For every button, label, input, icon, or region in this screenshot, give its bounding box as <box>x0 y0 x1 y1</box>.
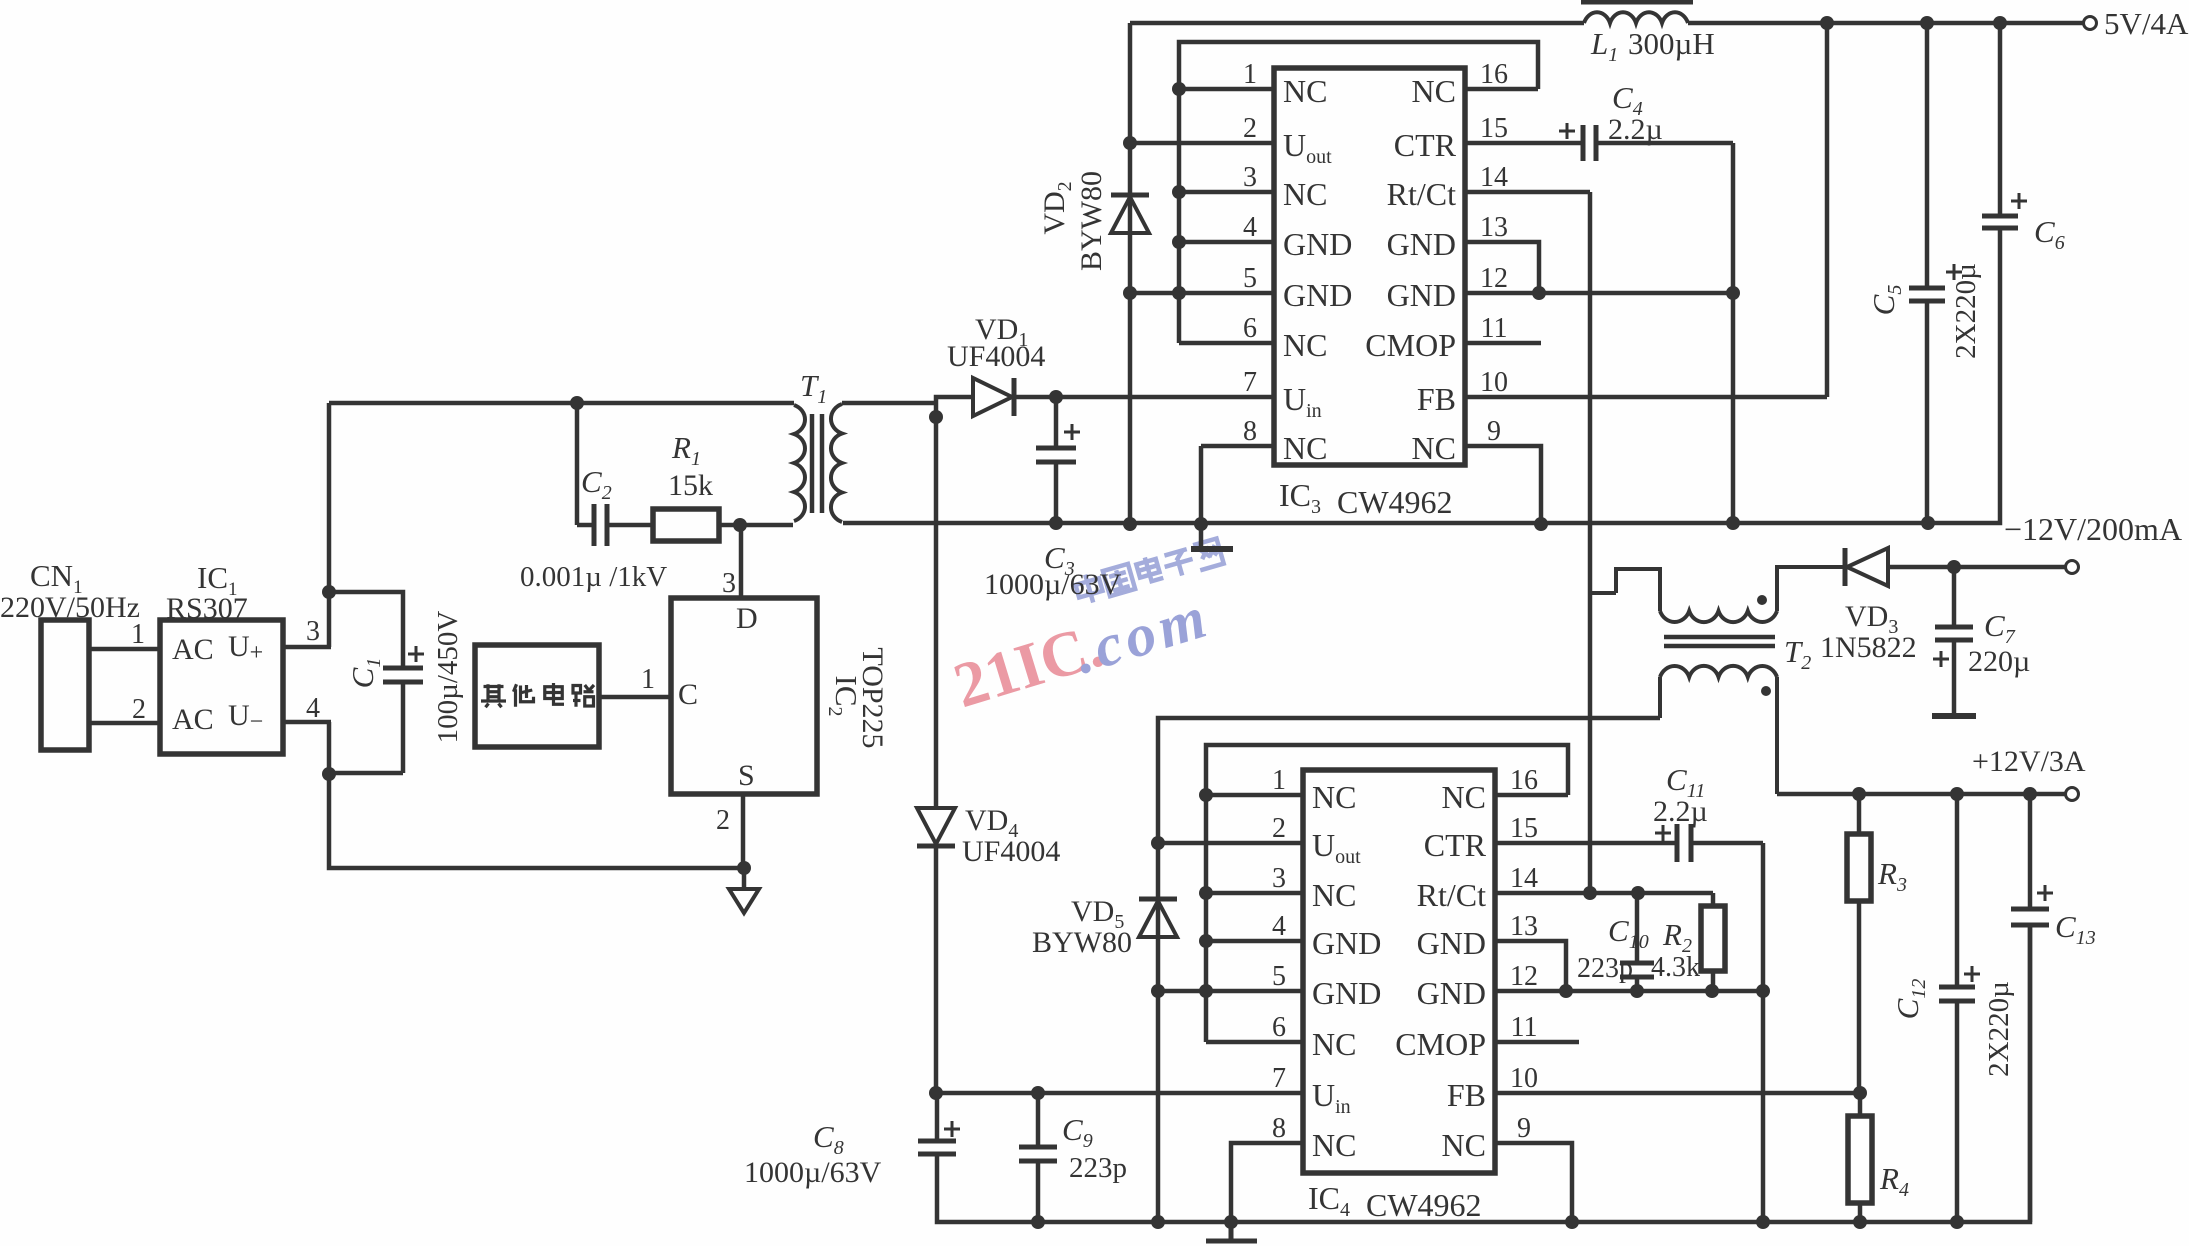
svg-text:2.2µ: 2.2µ <box>1653 795 1708 828</box>
wire IC3 pin8 <box>1201 444 1274 449</box>
junction IC4 pin5 b <box>1199 984 1213 998</box>
phase dot T2 primary <box>1757 595 1767 605</box>
wire C2 branch vertical <box>575 403 580 525</box>
transformer T1 <box>794 404 842 522</box>
junction C3 top <box>1049 390 1063 404</box>
svg-text:1: 1 <box>1272 765 1286 796</box>
svg-text:12: 12 <box>1480 263 1508 294</box>
svg-text:−12V/200mA: −12V/200mA <box>2004 511 2182 547</box>
capacitor C13 2X220u <box>2011 794 2049 1222</box>
wire IC4 outer loop <box>1158 718 1660 1222</box>
svg-text:2: 2 <box>132 694 146 725</box>
svg-text:UF4004: UF4004 <box>962 835 1060 868</box>
junction pin5 b <box>1172 286 1186 300</box>
wire IC1 pin4 down <box>329 722 745 868</box>
wire IC4 pin11 CMOP stub <box>1495 1040 1579 1045</box>
wire 5V rail right <box>1688 21 2083 26</box>
wire C1 top branch <box>329 592 403 667</box>
svg-text:3: 3 <box>306 616 320 647</box>
wire IC4 pin9 loop <box>1495 1143 1572 1222</box>
junction C6 / 5V rail <box>1993 16 2007 30</box>
junction C5 / 5V rail <box>1920 16 1934 30</box>
junction R1 / T1 primary bottom / IC2 D <box>733 518 747 532</box>
wire VD1 to IC3 Uin <box>1014 395 1274 400</box>
svg-text:BYW80: BYW80 <box>1075 171 1108 271</box>
svg-text:2: 2 <box>1243 113 1257 144</box>
wire IC4 pin14 RtCt <box>1495 891 1713 896</box>
wire ground stub <box>742 868 747 888</box>
watermark 21IC pink logo <box>946 609 1111 721</box>
svg-text:14: 14 <box>1480 162 1508 193</box>
svg-text:2X220µ: 2X220µ <box>1950 263 1982 359</box>
svg-text:TOP225: TOP225 <box>856 647 889 748</box>
wire IC3 pin16 <box>1465 87 1538 92</box>
svg-text:15: 15 <box>1510 813 1538 844</box>
wire C1 bottom branch <box>329 771 403 776</box>
wire other-circuit to IC2 C pin <box>599 695 671 700</box>
wire primary top rail <box>329 401 794 406</box>
junction CTR net / pin12 <box>1756 984 1770 998</box>
svg-text:13: 13 <box>1510 911 1538 942</box>
svg-text:5V/4A: 5V/4A <box>2104 6 2189 41</box>
svg-text:Rt/Ct: Rt/Ct <box>1387 176 1456 212</box>
wire IC4 pin6 <box>1206 1040 1303 1045</box>
svg-text:2: 2 <box>716 805 730 836</box>
junction C12 / bottom rail <box>1950 1215 1964 1229</box>
svg-text:GND: GND <box>1283 226 1352 262</box>
svg-text:7: 7 <box>1272 1063 1286 1094</box>
wire CN1 pin1 to IC1 <box>89 647 160 652</box>
wire IC3 pin5 <box>1130 291 1274 296</box>
svg-text:GND: GND <box>1312 975 1381 1011</box>
capacitor C4 2.2u <box>1465 125 1733 161</box>
svg-text:NC: NC <box>1312 1127 1356 1163</box>
junction VD4 branch <box>929 410 943 424</box>
svg-text:UF4004: UF4004 <box>947 340 1045 373</box>
wire IC4 pin7 Uin <box>936 1091 1303 1096</box>
wire IC3 pin4 <box>1179 240 1274 245</box>
junction pin13/pin12 <box>1532 286 1546 300</box>
svg-text:NC: NC <box>1312 877 1356 913</box>
diode VD4 UF4004 <box>917 808 955 846</box>
junction ground / bottom rail <box>1224 1215 1238 1229</box>
watermark blue .com script <box>1066 583 1218 687</box>
connector CN1 <box>41 620 89 750</box>
svg-text:S: S <box>738 759 755 792</box>
junction pin5 a <box>1123 286 1137 300</box>
svg-text:1000µ/63V: 1000µ/63V <box>984 568 1122 601</box>
svg-text:NC: NC <box>1283 176 1327 212</box>
wire IC4 pin5 <box>1158 989 1303 994</box>
earth ground symbol bottom <box>1206 1222 1257 1241</box>
capacitor C9 223p <box>1019 1093 1057 1222</box>
svg-text:3: 3 <box>1243 162 1257 193</box>
svg-text:FB: FB <box>1447 1077 1486 1113</box>
wire IC1 pin4 to node <box>283 720 331 725</box>
chassis bar below pin8 junction <box>1191 546 1233 552</box>
capacitor C1 100u/450V <box>383 667 423 773</box>
svg-text:Rt/Ct: Rt/Ct <box>1417 877 1486 913</box>
junction R4 / bottom rail <box>1853 1215 1867 1229</box>
svg-text:GND: GND <box>1417 925 1486 961</box>
svg-text:1: 1 <box>131 619 145 650</box>
svg-text:GND: GND <box>1387 277 1456 313</box>
junction primary top / C2 branch <box>570 396 584 410</box>
svg-text:+12V/3A: +12V/3A <box>1972 745 2086 778</box>
svg-text:14: 14 <box>1510 863 1538 894</box>
junction S pin / return wire <box>737 861 751 875</box>
wire IC3 pin1 <box>1179 87 1274 92</box>
terminal 5V/4A <box>2084 17 2097 30</box>
junction FB branch / 5V rail <box>1820 16 1834 30</box>
junction Uin / C8 <box>929 1086 943 1100</box>
svg-text:AC: AC <box>172 703 214 736</box>
bridge rectifier IC1 RS307 <box>160 620 283 754</box>
transformer T2 <box>1590 567 1845 794</box>
junction DC+ / C1 top <box>322 585 336 599</box>
svg-text:GND: GND <box>1417 975 1486 1011</box>
junction pin13/pin12 IC4 <box>1559 984 1573 998</box>
capacitor C2 0.001u/1kV <box>577 504 653 546</box>
junction C12 / +12V <box>1950 787 1964 801</box>
svg-text:1: 1 <box>641 664 655 695</box>
svg-text:NC: NC <box>1412 73 1456 109</box>
capacitor C8 1000u/63V <box>918 1093 956 1155</box>
junction R2 bottom <box>1705 984 1719 998</box>
wire IC4 pin3 <box>1206 891 1303 896</box>
junction pin2 Uout <box>1123 136 1137 150</box>
diode VD1 UF4004 <box>973 378 1014 416</box>
junction DC- / C1 bottom <box>322 767 336 781</box>
junction C9 / bottom rail <box>1031 1215 1045 1229</box>
wire IC4 pin10 FB <box>1495 1091 1860 1096</box>
junction IC3 outer loop / rail <box>1123 517 1137 531</box>
svg-text:NC: NC <box>1283 327 1327 363</box>
svg-text:3: 3 <box>1272 863 1286 894</box>
capacitor C7 220u <box>1935 567 1973 714</box>
wire IC2 S pin <box>741 794 746 868</box>
wire T1 secondary top <box>842 401 936 406</box>
ground symbol (open triangle) <box>729 889 759 913</box>
svg-text:GND: GND <box>1387 226 1456 262</box>
wire DC+ node vertical <box>327 403 332 647</box>
wire IC3 pin14 RtCt <box>1465 190 1590 195</box>
svg-text:CTR: CTR <box>1424 827 1487 863</box>
capacitor C6 2X220u <box>1982 23 2018 235</box>
wire -12V rail <box>843 235 2000 523</box>
svg-text:8: 8 <box>1243 416 1257 447</box>
box other circuit <box>475 645 599 747</box>
svg-text:CMOP: CMOP <box>1395 1026 1486 1062</box>
resistor R2 4.3k <box>1701 893 1725 991</box>
junction C10 top <box>1631 886 1645 900</box>
wire IC3 pin11 CMOP stub <box>1465 341 1541 346</box>
wire IC2 D pin <box>739 525 744 598</box>
wire pin8 stub down <box>1199 524 1204 547</box>
svg-text:2X220µ: 2X220µ <box>1983 981 2015 1077</box>
wire IC4 pin1 <box>1206 793 1303 798</box>
capacitor C3 1000u/63V <box>1036 397 1076 524</box>
junction FB / R3 R4 <box>1853 1086 1867 1100</box>
svg-text:NC: NC <box>1283 430 1327 466</box>
junction pin3 <box>1172 185 1186 199</box>
svg-text:9: 9 <box>1517 1113 1531 1144</box>
svg-text:13: 13 <box>1480 212 1508 243</box>
terminal +12V/3A <box>2066 788 2079 801</box>
svg-text:7: 7 <box>1243 367 1257 398</box>
svg-text:NC: NC <box>1312 1026 1356 1062</box>
svg-text:NC: NC <box>1442 1127 1486 1163</box>
resistor R1 15k <box>653 509 793 541</box>
wire IC3 pin8 down <box>1199 446 1204 524</box>
wire IC3 pin2 Uout <box>1130 141 1274 146</box>
junction IC4 pin5 a <box>1151 984 1165 998</box>
svg-text:6: 6 <box>1243 313 1257 344</box>
wire 5V to FB <box>1825 23 1830 397</box>
svg-text:D: D <box>736 602 758 635</box>
junction pin1 <box>1172 82 1186 96</box>
junction IC3 pin8 / rail <box>1194 517 1208 531</box>
svg-text:16: 16 <box>1480 59 1508 90</box>
diode VD3 1N5822 <box>1845 548 1888 586</box>
wire 5V rail left <box>1130 21 1584 26</box>
wire IC4 pin13 loop <box>1495 941 1566 991</box>
svg-text:5: 5 <box>1272 961 1286 992</box>
phase dot T2 secondary <box>1761 686 1771 696</box>
junction IC4 pin4 <box>1199 934 1213 948</box>
junction RtCt chain <box>1583 886 1597 900</box>
junction C7 top <box>1947 560 1961 574</box>
svg-text:220µ: 220µ <box>1968 645 2030 678</box>
chassis bar C7 bottom <box>1932 713 1976 719</box>
junction C5 bottom / rail <box>1921 516 1935 530</box>
diode VD2 BYW80 <box>1111 195 1149 233</box>
junction pin9 loop / bottom rail <box>1565 1215 1579 1229</box>
svg-text:FB: FB <box>1417 381 1456 417</box>
junction C4 net / pin12 <box>1726 286 1740 300</box>
junction IC3 pin9 / rail <box>1534 517 1548 531</box>
svg-text:5: 5 <box>1243 263 1257 294</box>
svg-text:CTR: CTR <box>1394 127 1457 163</box>
wire CTR net down <box>1761 843 1766 1222</box>
wire CN1 pin2 to IC1 <box>89 721 160 726</box>
svg-text:BYW80: BYW80 <box>1032 926 1132 959</box>
wire IC4 pin12 <box>1495 989 1763 994</box>
junction IC3 GND net / rail <box>1726 516 1740 530</box>
svg-text:6: 6 <box>1272 1012 1286 1043</box>
wire IC4 pin2 Uout <box>1158 841 1303 846</box>
svg-text:223p: 223p <box>1577 953 1633 984</box>
svg-text:1000µ/63V: 1000µ/63V <box>744 1156 882 1189</box>
svg-text:9: 9 <box>1487 416 1501 447</box>
wire IC3 pin6 <box>1179 341 1274 346</box>
svg-text:11: 11 <box>1481 313 1508 344</box>
wire VD3 to -12V terminal <box>1888 565 2066 570</box>
svg-text:2: 2 <box>1272 813 1286 844</box>
junction R3 / +12V <box>1852 787 1866 801</box>
svg-text:AC: AC <box>172 633 214 666</box>
svg-text:8: 8 <box>1272 1113 1286 1144</box>
wire IC4 pin16 <box>1495 793 1568 798</box>
wire IC3 pin10 FB <box>1465 395 1827 400</box>
junction IC4 pin3 <box>1199 886 1213 900</box>
capacitor C11 2.2u <box>1495 824 1763 862</box>
svg-text:16: 16 <box>1510 765 1538 796</box>
svg-text:1: 1 <box>1243 59 1257 90</box>
capacitor C12 2X220u <box>1939 794 1975 1222</box>
svg-text:4: 4 <box>1272 911 1286 942</box>
resistor R4 <box>1848 1093 1872 1222</box>
wire IC3 pin13 loop <box>1465 242 1539 293</box>
capacitor C10 223p <box>1620 893 1654 991</box>
junction C10 bottom <box>1630 984 1644 998</box>
junction C3 bottom <box>1049 516 1063 530</box>
svg-text:NC: NC <box>1442 779 1486 815</box>
svg-text:2.2µ: 2.2µ <box>1608 113 1663 146</box>
wire IC4 inner loop <box>1206 745 1568 1042</box>
wire RtCt chain vertical <box>1588 192 1593 893</box>
wire IC3 inner loop <box>1179 42 1538 343</box>
svg-text:0.001µ /1kV: 0.001µ /1kV <box>520 561 667 593</box>
junction IC4 pin2 <box>1151 836 1165 850</box>
wire IC1 pin3 to node <box>283 645 331 650</box>
resistor R3 <box>1847 794 1871 1093</box>
terminal -12V/200mA <box>2066 561 2079 574</box>
svg-text:CMOP: CMOP <box>1365 327 1456 363</box>
svg-text:100µ/450V: 100µ/450V <box>432 611 464 744</box>
junction C13 / +12V <box>2023 787 2037 801</box>
regulator IC4 CW4962 <box>1303 770 1495 1173</box>
svg-text:NC: NC <box>1312 779 1356 815</box>
svg-text:15: 15 <box>1480 113 1508 144</box>
wire IC3 pin9 loop <box>1465 446 1541 524</box>
wire VD4 anode vertical <box>934 403 939 808</box>
wire bottom common rail <box>937 925 2030 1222</box>
wire IC3 outer loop top <box>1128 23 1133 524</box>
text label 其他电路 (other circuit) <box>481 684 506 707</box>
svg-text:11: 11 <box>1511 1012 1538 1043</box>
svg-text:4: 4 <box>1243 212 1257 243</box>
wire T1 sec top to VD1 <box>936 397 973 403</box>
svg-text:300µH: 300µH <box>1628 26 1715 61</box>
wire IC3 pin12 <box>1465 291 1733 296</box>
svg-text:GND: GND <box>1283 277 1352 313</box>
svg-text:1N5822: 1N5822 <box>1820 631 1917 664</box>
regulator IC3 CW4962 <box>1274 68 1465 465</box>
svg-text:12: 12 <box>1510 961 1538 992</box>
capacitor C5 2X220u <box>1909 23 1945 523</box>
wire IC3 pin3 <box>1179 190 1274 195</box>
junction Uin / C9 <box>1031 1086 1045 1100</box>
svg-text:3: 3 <box>722 568 736 599</box>
svg-text:10: 10 <box>1480 367 1508 398</box>
svg-text:NC: NC <box>1283 73 1327 109</box>
junction IC4 pin1 <box>1199 788 1213 802</box>
wire C4 to GND net <box>1731 143 1736 523</box>
svg-text:C: C <box>678 678 698 711</box>
svg-text:4.3k: 4.3k <box>1651 952 1700 983</box>
wire IC4 pin4 <box>1206 939 1303 944</box>
switcher IC2 TOP225 <box>671 598 817 794</box>
junction CTR net / bottom rail <box>1756 1215 1770 1229</box>
junction pin4 <box>1172 235 1186 249</box>
svg-text:223p: 223p <box>1069 1152 1127 1184</box>
svg-text:4: 4 <box>306 693 320 724</box>
diode VD5 BYW80 <box>1139 899 1177 937</box>
inductor L1 300uH <box>1581 2 1693 23</box>
svg-text:15k: 15k <box>668 469 713 502</box>
svg-text:NC: NC <box>1412 430 1456 466</box>
wire VD4 cathode to Uin <box>934 848 939 1093</box>
junction IC4 outer loop / bottom rail <box>1151 1215 1165 1229</box>
svg-text:10: 10 <box>1510 1063 1538 1094</box>
watermark blue CJK 中国电子网 <box>1074 537 1225 606</box>
wire +12V rail <box>1777 792 2066 797</box>
svg-text:GND: GND <box>1312 925 1381 961</box>
wire IC4 pin8 loop <box>1231 1143 1303 1222</box>
